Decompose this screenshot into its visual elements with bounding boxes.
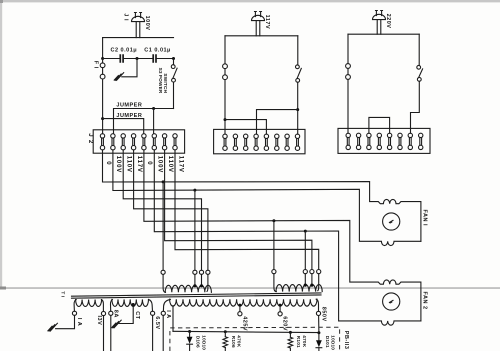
svg-text:110V: 110V	[167, 156, 174, 173]
node junction CT tap winding B	[132, 303, 135, 306]
wire primary1 lead 117V	[206, 274, 209, 291]
svg-text:117V: 117V	[177, 156, 184, 173]
wire plug2 cord down	[256, 21, 260, 36]
wire J1 cord down	[136, 22, 140, 38]
svg-text:0: 0	[146, 161, 153, 165]
wire secondary HV right lead	[316, 299, 318, 311]
wire HV 620V tap stub	[279, 305, 281, 311]
wire secondary A left lead	[74, 300, 76, 312]
svg-text:220V: 220V	[385, 14, 391, 29]
plug J1 (100V line cord)	[132, 13, 145, 22]
wire primary1 lead 100V tap	[194, 274, 196, 285]
wire circuit2 right drop	[297, 36, 299, 65]
svg-text:0: 0	[105, 161, 112, 165]
connector J2-1 pin 8	[173, 134, 177, 150]
node primary1 terminal 117V	[206, 270, 210, 274]
wire L2 drop to primary1 terminal 100V	[194, 190, 196, 270]
wire upper jumper tap to pin6	[153, 109, 155, 134]
ground chassis (CT)	[112, 320, 122, 328]
wire switch to upper jumper	[173, 82, 175, 108]
node terminal 6.5V	[151, 311, 155, 315]
node junction right cap row	[172, 57, 175, 60]
svg-text:S3: S3	[158, 68, 163, 74]
node primary1 terminal 100V	[193, 270, 197, 274]
node junction bus R106	[224, 330, 227, 333]
wire net L3 pin3-110V to primary1	[123, 150, 201, 270]
svg-text:I3V: I3V	[96, 316, 102, 326]
svg-text:620V: 620V	[282, 316, 288, 331]
node junction bus R101	[289, 331, 292, 334]
svg-text:JUMPER: JUMPER	[116, 113, 142, 119]
capacitor C1	[153, 54, 156, 62]
wire circuit2 upper jumper to pin4	[257, 110, 298, 135]
node junction mid cap row	[136, 57, 139, 60]
wire primary1 lead 110V tap	[201, 274, 203, 285]
node junction circuit2 lower jumper	[224, 118, 227, 121]
wire plug3 cord down	[377, 20, 381, 35]
wire net L7 pin7-110V to primary2	[165, 150, 312, 270]
svg-text:6.5V: 6.5V	[154, 316, 160, 329]
fuse circuit2	[223, 64, 228, 80]
svg-text:J I: J I	[123, 13, 129, 21]
wire circuit3 switch to pin7	[411, 81, 420, 133]
wire primary2 lead 110V tap	[311, 274, 313, 285]
connector J2-3 pin 7	[408, 133, 412, 149]
connector J2-1 pin 4	[131, 134, 135, 150]
svg-text:100V: 100V	[115, 156, 122, 173]
connector J2-1 pin 5	[142, 134, 146, 150]
diode D101	[316, 340, 322, 348]
wire lower jumper (neutral to pins 1,5)	[103, 119, 144, 134]
wire R106 bottom lead off page	[224, 348, 226, 351]
connector J2 block 3	[338, 128, 430, 153]
wire net L1 pin1-0 to FAN1 top	[103, 150, 421, 241]
svg-text:100V: 100V	[144, 16, 150, 31]
wire circuit2 neutral to pin1	[224, 80, 226, 135]
node terminal 1A winding A	[72, 311, 76, 315]
wire 850V to rectifier bus	[318, 316, 320, 333]
node primary2 terminal 117V	[317, 270, 321, 274]
wire circuit3 top rail	[348, 33, 419, 35]
node primary2 terminal 100V	[303, 270, 307, 274]
wire cap row right	[156, 58, 174, 60]
wire circuit3 series jumper pins 3-5	[369, 117, 390, 133]
wire D106 anode lead	[189, 332, 191, 337]
node junction upper jumper pin6	[152, 107, 155, 110]
wire circuit3 neutral to pin1	[347, 79, 349, 133]
wire net L4 pin4-117V to primary1	[134, 150, 208, 270]
wire circuit3 right drop	[418, 34, 420, 65]
connector J2-3 pin 3	[367, 133, 371, 149]
switch circuit3	[417, 65, 423, 81]
wire D101 cathode off page	[318, 348, 320, 351]
wire primary1 lead 0	[163, 274, 165, 292]
node junction circuit2 upper jumper	[296, 108, 299, 111]
wire 6.5V lead off page	[152, 315, 154, 351]
connector J2-2 pin 1	[223, 134, 227, 150]
switch S3 power switch	[171, 65, 177, 82]
svg-text:10D10: 10D10	[331, 335, 336, 350]
node junction primary1 110V tap	[200, 284, 203, 287]
svg-text:850V: 850V	[321, 307, 327, 322]
svg-text:R101: R101	[296, 336, 301, 348]
node terminal 850V	[316, 311, 320, 315]
wire D101 anode lead	[318, 333, 320, 340]
switch circuit2	[296, 65, 302, 82]
svg-text:D106: D106	[196, 336, 201, 348]
wire fuse F1 top lead	[102, 59, 104, 64]
node junction primary2 110V tap	[310, 284, 313, 287]
svg-text:FAN I: FAN I	[421, 210, 427, 227]
connector J2-1 pin 1	[100, 134, 104, 150]
wire circuit2 left drop	[224, 36, 226, 64]
connector J2-2 pin 4	[254, 134, 258, 150]
wire L1 drop to primary1 terminal 0	[162, 182, 164, 270]
resistor R106	[223, 337, 228, 348]
wire net L8 pin8-117V to primary2	[175, 150, 319, 270]
connector J2-2 pin 2	[233, 134, 237, 150]
wire secondary B right lead	[149, 300, 153, 312]
node junction primary1 100V tap	[193, 284, 196, 287]
svg-text:470K: 470K	[302, 335, 307, 347]
wire 1A terminal to chassis ground	[56, 315, 75, 328]
connector J2-2 pin 6	[275, 134, 279, 150]
wire cap row mid	[123, 58, 153, 60]
connector J2-3 pin 4	[377, 133, 381, 149]
node terminal 13V	[101, 311, 105, 315]
node junction bus D101	[317, 331, 320, 334]
node junction 425V tap	[239, 304, 242, 307]
wire net L2 pin2-100V to FAN1 bottom	[113, 150, 421, 246]
dashed enclosure PB-113 board	[170, 327, 340, 351]
svg-text:POWER: POWER	[158, 75, 163, 94]
wire HV tap to rectifier bus	[172, 306, 174, 332]
transformer T1 core	[72, 293, 322, 298]
wire circuit2 switch to pin8	[297, 82, 299, 134]
wire secondary B left lead	[110, 300, 112, 312]
wire circuit2 lower jumper to pin5	[225, 120, 266, 135]
capacitor C2	[120, 54, 123, 62]
wire upper jumper (live to pins 2,6)	[114, 109, 174, 134]
svg-text:C1 0.01μ: C1 0.01μ	[144, 47, 171, 53]
connector J2-2 pin 8	[295, 134, 299, 150]
connector J2 block 2	[214, 129, 305, 153]
svg-text:R106: R106	[231, 336, 236, 348]
wire primary2 lead 100V tap	[304, 274, 306, 285]
wire primary2 lead 0	[274, 274, 276, 292]
connector J2-1 pin 7	[162, 134, 166, 150]
svg-text:I A: I A	[76, 318, 82, 326]
svg-text:FAN 2: FAN 2	[421, 292, 427, 310]
node terminal 425V	[238, 312, 242, 316]
connector J2-3 pin 2	[356, 133, 360, 149]
node junction primary2 100V tap	[304, 284, 307, 287]
wire circuit3 left drop	[347, 34, 349, 63]
ground chassis (line filter)	[114, 73, 124, 81]
wire secondary HV left lead	[163, 299, 170, 311]
connector J2 block 1	[93, 130, 184, 153]
ground chassis (winding A)	[48, 323, 58, 331]
wire circuit1 top rail	[103, 37, 174, 39]
svg-text:SWITCH: SWITCH	[163, 73, 168, 93]
node junction lower jumper pin1	[101, 117, 104, 120]
wire L5 drop to primary2 terminal 0	[273, 221, 275, 270]
svg-text:470K: 470K	[237, 335, 242, 347]
svg-text:C2 0.01μ: C2 0.01μ	[111, 47, 138, 53]
wire rectifier bus	[173, 331, 319, 332]
wire 8A lead off page	[110, 315, 112, 351]
connector J2-3 pin 5	[387, 133, 391, 149]
svg-text:117V: 117V	[264, 15, 270, 30]
inductor secondary winding HV (850V)	[170, 299, 317, 306]
node junction left cap row	[101, 57, 104, 60]
resistor R101	[288, 337, 293, 348]
wire D106 cathode off page	[189, 344, 191, 351]
wire secondary A right lead	[101, 300, 103, 312]
connector J2-1 pin 3	[121, 134, 125, 150]
node junction L6 primary2 tap 100V	[304, 230, 307, 233]
node primary2 terminal 110V	[310, 270, 314, 274]
connector J2-3 pin 8	[419, 133, 423, 149]
node primary2 terminal 0	[272, 270, 276, 274]
connector J2-2 pin 7	[285, 134, 289, 150]
node terminal 1A winding HV	[161, 311, 165, 315]
svg-text:10D10: 10D10	[201, 335, 206, 350]
svg-text:I A: I A	[165, 310, 171, 318]
svg-text:8A: 8A	[113, 310, 119, 318]
svg-text:JUMPER: JUMPER	[116, 103, 142, 109]
wire R106 top lead	[224, 332, 226, 337]
node terminal 620V	[278, 312, 282, 316]
wire CT tap to chassis ground	[119, 305, 133, 324]
node junction bus D106	[188, 330, 191, 333]
connector J2-2 pin 3	[244, 134, 248, 150]
svg-text:J 2: J 2	[87, 133, 94, 144]
svg-text:T I: T I	[61, 291, 66, 297]
node junction L2 primary1 tap 100V	[193, 189, 196, 192]
node terminal 8A winding B	[109, 311, 113, 315]
svg-text:PB-II3: PB-II3	[343, 331, 349, 350]
wire fuse to lower jumper and pin1	[102, 79, 104, 134]
wire primary2 lead 117V	[317, 274, 320, 291]
connector J2-2 pin 5	[264, 134, 268, 150]
svg-text:110V: 110V	[126, 156, 133, 173]
fan motor FAN2	[383, 293, 400, 310]
svg-text:425V: 425V	[242, 316, 248, 331]
node junction L1 primary1 tap 0	[162, 180, 165, 183]
svg-text:CT: CT	[134, 311, 140, 319]
inductor secondary winding A (13V)	[76, 300, 102, 307]
inductor primary winding 2	[276, 285, 322, 292]
fuse F1	[100, 63, 105, 79]
wire R101 top lead	[289, 332, 291, 337]
plug J2-3 (220V line cord)	[373, 11, 386, 20]
wire circuit2 top rail	[225, 35, 298, 37]
wire 13V lead off page	[103, 316, 105, 351]
svg-text:F I: F I	[93, 61, 99, 69]
node primary1 terminal 110V	[199, 270, 203, 274]
wire net L6 pin6-100V to FAN2 bottom	[154, 150, 421, 325]
svg-text:D101: D101	[325, 336, 330, 348]
wire R101 bottom lead off page	[289, 348, 291, 351]
wire cap row left	[103, 58, 121, 60]
wire circuit1 left drop to cap row	[102, 38, 104, 59]
fuse circuit3	[346, 64, 351, 80]
connector J2-3 pin 6	[398, 133, 402, 149]
connector J2-1 pin 2	[111, 134, 115, 150]
node junction 620V tap	[279, 304, 282, 307]
svg-text:100V: 100V	[157, 156, 164, 173]
wire HV 425V tap stub	[239, 305, 241, 311]
node junction L5 primary2 tap 0	[272, 219, 275, 222]
wire ground tap from C1/C2 junction	[122, 59, 137, 77]
inductor secondary winding B (6.3V 8A)	[112, 299, 149, 306]
svg-text:117V: 117V	[136, 156, 143, 173]
plug J2-2 (117V line cord)	[252, 12, 265, 21]
connector J2-3 pin 1	[346, 133, 350, 149]
fan motor FAN1	[383, 213, 400, 230]
diode D106	[187, 337, 193, 345]
inductor primary winding 1	[165, 285, 211, 292]
wire circuit1 right drop to switch	[173, 59, 175, 65]
wire L6 drop to primary2 terminal 100V	[304, 231, 306, 269]
connector J2-1 pin 6	[152, 134, 156, 150]
wire HV 1A lead off page	[162, 315, 164, 351]
node primary1 terminal 0	[161, 270, 165, 274]
wire net L5 pin5-0 to FAN2 top	[144, 150, 421, 321]
